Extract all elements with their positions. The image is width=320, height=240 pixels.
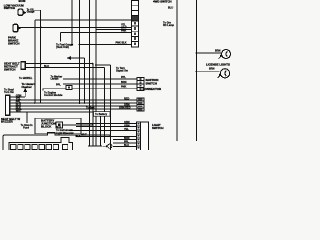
ignition switch connector [137,77,144,90]
svg-text:Control Module: Control Module [44,94,63,97]
low vacuum switch [18,9,26,15]
fuse panel outer [3,132,111,152]
wire seat belt BLK [25,68,105,143]
svg-text:YEL: YEL [28,77,33,80]
wire light switch 1 [76,123,137,125]
svg-text:Signal Sw: Signal Sw [116,69,128,72]
light switch [137,122,149,151]
wire bulkhead 2 [10,99,137,101]
fuse 4 [32,144,37,149]
wire vertical D [89,0,91,146]
svg-text:Flasher: Flasher [22,85,33,89]
svg-text:BRN: BRN [215,50,221,53]
wire right vertical 2 [196,0,198,141]
wire turn signal [96,65,111,137]
svg-text:Lamps: Lamps [51,78,60,81]
svg-text:GRN RED: GRN RED [119,106,131,109]
wire WHT [96,29,132,31]
fuse panel inner [9,138,73,152]
svg-text:BLU: BLU [168,6,173,9]
fuse 1 [11,144,16,149]
wire PNK ignition [43,89,137,91]
fuse 6 [46,144,51,149]
svg-text:BLK: BLK [124,144,129,147]
svg-text:BRN: BRN [209,68,215,71]
wire PNK BLK [78,0,80,103]
svg-text:PPL: PPL [56,83,61,86]
svg-text:BLOCK: BLOCK [41,124,52,128]
wire vertical E [95,0,97,146]
wire bottom bus [88,145,102,147]
wire vertical F [92,64,94,146]
svg-text:SWITCH: SWITCH [146,82,157,86]
fuse 3 [25,144,30,149]
bulkhead connector [6,95,10,115]
wire light switch 5 [113,139,137,141]
svg-text:SWITCH: SWITCH [8,41,19,45]
wire bulkhead 3 [10,102,137,104]
wire PPL ignition [63,78,137,80]
junction dots [34,26,198,125]
svg-text:WHT: WHT [16,110,22,113]
svg-text:PPL: PPL [121,76,126,79]
battery junction block [35,118,81,134]
wire license light 2 [197,71,220,73]
wire switch1 to corner [32,9,40,11]
svg-text:4WD SWITCH: 4WD SWITCH [153,0,172,3]
svg-text:YEL: YEL [124,128,129,131]
wire vertical A [40,10,42,103]
wire fuel sender arrow [70,58,84,103]
wire PNK BLK horiz [79,44,131,46]
label to battery box [94,112,111,117]
svg-text:Gauge: Gauge [27,11,35,14]
svg-text:Turn Sw: Turn Sw [4,91,14,94]
svg-text:BRN: BRN [121,81,127,84]
wire fuse stub [26,112,28,123]
svg-text:BUZZER: BUZZER [1,120,14,124]
svg-text:(Tank Unit): (Tank Unit) [56,46,69,49]
svg-text:PNK: PNK [121,30,126,33]
svg-text:RED: RED [124,97,129,100]
wire bulkhead 6 [10,112,101,146]
park brake switch [13,24,21,32]
battery terminal [56,122,62,128]
wire seat belt 1 [25,63,93,65]
connector stack C100 [132,0,139,47]
fuse 8 [62,144,67,149]
seat belt switch [21,62,25,69]
svg-text:PNK: PNK [121,86,126,89]
wire PNK fuel gauge [61,33,132,42]
svg-text:LICENSE LIGHTS: LICENSE LIGHTS [206,62,230,66]
wire license light 1 [197,52,221,54]
svg-text:Fuse: Fuse [23,127,29,130]
fuse 7 [53,144,58,149]
wire battery terminal [62,124,92,126]
svg-text:SWITCH: SWITCH [152,126,163,130]
wire bulkhead 4 [10,105,137,107]
connector round [103,144,112,148]
wire vertical C [71,0,73,45]
license bulb 1 [219,50,231,59]
svg-text:Light Rheostat: Light Rheostat [56,132,74,135]
wire BRN ignition [63,83,137,85]
svg-text:BLK: BLK [44,65,49,68]
svg-text:To Battery: To Battery [95,113,108,116]
svg-text:9C30: 9C30 [19,0,26,3]
fuse 2 [18,144,23,149]
wire light switch 2 [76,126,137,128]
license bulb 2 [218,69,230,78]
svg-text:CONNECTOR: CONNECTOR [143,87,162,91]
wire light switch 6 [113,142,137,144]
wire hazard [10,92,25,97]
wire rheostat [70,129,137,131]
wire light switch 7 [113,146,137,148]
connector C2 [137,98,144,111]
svg-text:PNK BLK: PNK BLK [116,42,127,45]
wire bulkhead 5 [10,108,137,110]
wire light switch 4 [76,136,137,138]
svg-text:SWITCH: SWITCH [4,67,15,71]
wire H1 [35,19,132,21]
svg-text:SWITCH: SWITCH [4,6,15,10]
inline connector [66,85,72,89]
wire right vertical 1 [176,0,178,141]
svg-text:To Batt: To Batt [86,107,95,110]
fuse 5 [39,144,44,149]
svg-text:RD Lamp: RD Lamp [163,24,174,27]
svg-text:WHT: WHT [81,133,87,136]
wire park brake to connector [18,26,132,28]
wire vertical B [34,20,36,103]
